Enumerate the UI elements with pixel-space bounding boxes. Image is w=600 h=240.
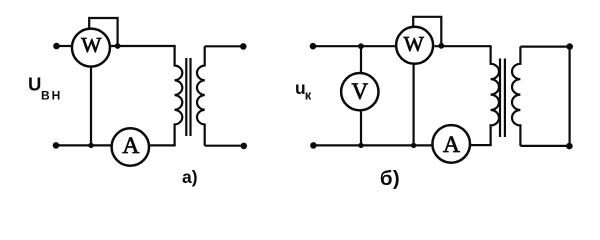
wire: wattmeter current-coil drop (b) — [413, 64, 415, 146]
node: output terminal top-right (a) — [240, 43, 247, 50]
node: output terminal bottom-right (a) — [241, 143, 248, 150]
ammeter A (a) — [112, 128, 149, 165]
transformer T1 core (a) — [185, 58, 187, 136]
transformer T1 secondary winding (a) — [197, 46, 205, 145]
wire: bottom wire from A to transformer (a) — [150, 144, 176, 146]
svg-text:а): а) — [182, 167, 198, 187]
svg-text:V: V — [351, 79, 368, 104]
wire: wattmeter voltage-coil bracket (b) — [413, 17, 441, 46]
svg-text:W: W — [404, 32, 425, 56]
transformer T2 core (b) — [499, 59, 501, 138]
svg-text:ВН: ВН — [41, 89, 62, 103]
node: junction of voltmeter branch with top wire (b) — [358, 43, 364, 49]
transformer T2 secondary winding (b) — [512, 47, 520, 146]
wire: top wire from terminal to W (b) — [313, 45, 396, 47]
wire: voltmeter branch upper segment (b) — [360, 46, 362, 73]
node: junction of W drop with bottom wire (b) — [411, 143, 416, 148]
node: input terminal top-left of circuit a — [53, 43, 60, 50]
wire: short-circuit vertical link (b) — [568, 47, 570, 147]
node: short-circuit link top junction (b) — [566, 43, 573, 50]
node: input terminal top-left of circuit b — [310, 43, 317, 50]
wire: wattmeter voltage-coil bracket (a) — [89, 18, 117, 46]
ammeter A (b) — [432, 125, 470, 163]
transformer T1 primary winding (a) — [175, 46, 183, 145]
wire: bottom-left lead (a) — [56, 144, 112, 146]
node: junction of W drop with bottom wire (a) — [88, 143, 93, 148]
wire: voltmeter branch lower segment (b) — [360, 110, 362, 145]
svg-text:U: U — [28, 74, 41, 95]
wire: top-left lead to wattmeter (a) — [57, 45, 72, 47]
node: junction of bracket with top wire (b) — [438, 43, 444, 49]
node: junction of voltmeter branch with bottom wire (b) — [358, 143, 363, 148]
wattmeter W (a) — [72, 29, 110, 67]
svg-text:A: A — [122, 133, 139, 159]
wire: secondary bottom lead (a) — [205, 145, 244, 147]
node: input terminal bottom-left of circuit b — [310, 142, 317, 149]
node: input terminal bottom-left of circuit a — [53, 142, 60, 149]
wire: secondary top lead to short link (b) — [520, 45, 569, 47]
svg-text:A: A — [443, 132, 460, 158]
node: short-circuit link bottom junction (b) — [566, 143, 573, 150]
wire: top wire from W to transformer (a) — [111, 45, 176, 47]
svg-text:к: к — [305, 88, 312, 103]
transformer T2 primary winding (b) — [491, 46, 499, 145]
svg-text:W: W — [81, 33, 102, 57]
wire: bottom wire from A to transformer (b) — [471, 144, 492, 146]
wire: top wire from W to transformer (b) — [435, 45, 492, 47]
label: u_к short-circuit voltage (b) — [295, 78, 312, 103]
voltmeter V (b) — [341, 73, 378, 110]
wattmeter W (b) — [396, 27, 433, 64]
wire: bottom wire from terminal to A (b) — [313, 144, 431, 146]
wire: secondary top lead (a) — [205, 45, 244, 47]
wire: wattmeter current-coil drop (a) — [90, 66, 92, 145]
svg-text:б): б) — [380, 167, 400, 190]
wire: secondary bottom lead to short link (b) — [520, 145, 569, 147]
label: U_вн input voltage (a) — [28, 74, 62, 103]
node: junction of bracket with top wire (a) — [115, 43, 121, 49]
